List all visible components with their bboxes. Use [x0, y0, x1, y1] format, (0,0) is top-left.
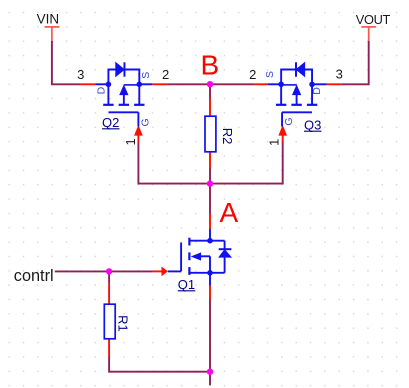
- svg-text:VIN: VIN: [37, 11, 60, 26]
- svg-text:3: 3: [336, 67, 343, 82]
- svg-text:B: B: [201, 50, 220, 81]
- svg-text:D: D: [95, 86, 107, 94]
- svg-text:Q3: Q3: [304, 118, 321, 133]
- svg-text:S: S: [140, 72, 152, 79]
- svg-text:Q2: Q2: [102, 115, 119, 130]
- svg-text:2: 2: [249, 67, 256, 82]
- svg-text:R1: R1: [115, 315, 130, 332]
- svg-text:VOUT: VOUT: [356, 12, 391, 27]
- svg-text:G: G: [283, 117, 295, 125]
- svg-text:G: G: [139, 118, 151, 126]
- svg-text:S: S: [264, 71, 276, 78]
- svg-text:3: 3: [77, 67, 84, 82]
- svg-text:R2: R2: [220, 128, 235, 145]
- svg-text:Q1: Q1: [178, 277, 195, 292]
- svg-text:2: 2: [162, 67, 169, 82]
- svg-text:1: 1: [123, 138, 138, 145]
- svg-text:contrl: contrl: [14, 267, 54, 285]
- svg-text:D: D: [311, 87, 323, 95]
- svg-text:1: 1: [266, 139, 281, 146]
- svg-text:A: A: [220, 197, 239, 228]
